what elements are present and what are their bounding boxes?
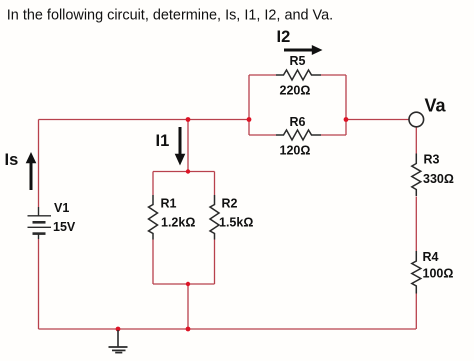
svg-text:R2: R2 [222, 197, 238, 211]
svg-text:1.2kΩ: 1.2kΩ [161, 216, 195, 230]
svg-text:R1: R1 [161, 197, 177, 211]
svg-text:220Ω: 220Ω [280, 84, 311, 98]
svg-text:R3: R3 [424, 153, 440, 167]
svg-text:R5: R5 [290, 54, 306, 68]
svg-text:100Ω: 100Ω [423, 267, 454, 281]
svg-text:V1: V1 [54, 201, 69, 215]
svg-text:15V: 15V [53, 220, 76, 234]
svg-text:In the following circuit, dete: In the following circuit, determine, Is,… [7, 8, 333, 24]
svg-text:I2: I2 [277, 28, 291, 46]
svg-text:Va: Va [425, 96, 447, 116]
svg-text:I1: I1 [156, 132, 170, 150]
svg-text:1.5kΩ: 1.5kΩ [219, 216, 253, 230]
svg-text:120Ω: 120Ω [280, 144, 311, 158]
svg-text:Is: Is [5, 151, 19, 169]
svg-text:R4: R4 [423, 250, 439, 264]
svg-text:330Ω: 330Ω [423, 172, 454, 186]
svg-text:R6: R6 [290, 115, 306, 129]
